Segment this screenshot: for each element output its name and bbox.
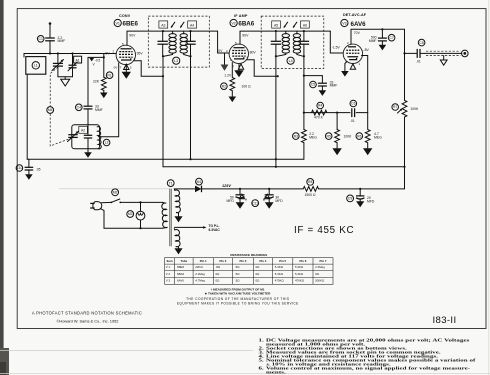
capacitor C6 label bbox=[350, 100, 357, 107]
svg-text:70V: 70V bbox=[354, 31, 361, 35]
svg-text:Item: Item bbox=[167, 259, 173, 263]
wire grid rail bbox=[24, 53, 116, 55]
capacitor C10 bbox=[25, 159, 34, 174]
wire R1 to ground bbox=[103, 90, 105, 92]
svg-text:-1.5V: -1.5V bbox=[332, 46, 341, 50]
inductor L3 label bbox=[173, 57, 180, 64]
transformer T1 secondary HV coil bbox=[174, 189, 180, 213]
ground C7 bbox=[379, 45, 387, 51]
trimmer A2 box label bbox=[79, 126, 88, 133]
wire L4 primary return to B+ bus bbox=[275, 56, 277, 167]
tube V2 internals bbox=[232, 48, 246, 59]
svg-text:100K: 100K bbox=[410, 107, 419, 111]
resistor R2 label bbox=[221, 83, 228, 90]
svg-text:©Howard W. Sams & Co., Inc. 19: ©Howard W. Sams & Co., Inc. 1952 bbox=[57, 319, 119, 324]
capacitor L4 primary bbox=[271, 31, 281, 56]
node R3 junction bbox=[303, 112, 305, 114]
ground R1 bbox=[100, 93, 108, 99]
resistor R7 label bbox=[392, 104, 399, 111]
wire V2 screen stub bbox=[247, 60, 278, 76]
wire V1 cathode bbox=[125, 65, 127, 72]
node AVC bus at L3 bbox=[189, 158, 191, 160]
pin labels V3 bbox=[345, 41, 361, 66]
ground V3 cathode bbox=[341, 71, 349, 77]
capacitor osc padder bbox=[84, 125, 92, 152]
svg-text:MMF: MMF bbox=[58, 39, 66, 43]
voltage 0V V2 grid bbox=[218, 49, 228, 53]
svg-text:1.2V: 1.2V bbox=[224, 74, 232, 78]
capacitor C5 label bbox=[310, 81, 317, 88]
svg-text:6.: 6. bbox=[259, 367, 265, 372]
svg-text:.5Ω: .5Ω bbox=[235, 279, 240, 283]
node trimmer junction bbox=[71, 52, 73, 54]
svg-text:V 1: V 1 bbox=[166, 265, 171, 269]
svg-text:RESISTANCE READINGS: RESISTANCE READINGS bbox=[230, 253, 267, 257]
capacitor C10 label bbox=[16, 165, 23, 172]
wire test stub bbox=[88, 56, 104, 58]
node L4 right bottom bbox=[303, 55, 305, 57]
ground C10 bbox=[25, 174, 33, 180]
svg-text:0V: 0V bbox=[218, 49, 223, 53]
svg-text:T1: T1 bbox=[169, 181, 173, 185]
ground V2 cathode arrow bbox=[234, 70, 243, 77]
node pilot top bbox=[139, 201, 141, 203]
capacitor C7 label bbox=[388, 34, 395, 41]
svg-text:22KΩ: 22KΩ bbox=[195, 265, 203, 269]
wire AVC line bbox=[304, 112, 368, 114]
svg-text:100K: 100K bbox=[344, 134, 353, 138]
resistor R1 22K bbox=[101, 77, 106, 90]
wire plate line down to volume control bbox=[404, 29, 406, 100]
svg-text:L1: L1 bbox=[34, 64, 38, 68]
switch M2 label bbox=[112, 189, 119, 196]
trimmer capacitor A1 box bbox=[74, 56, 82, 63]
svg-text:CONV: CONV bbox=[119, 14, 131, 18]
svg-text:.8Ω: .8Ω bbox=[216, 265, 221, 269]
svg-text:2.2Meg: 2.2Meg bbox=[195, 272, 205, 276]
svg-text:.01: .01 bbox=[350, 119, 355, 123]
svg-text:C5: C5 bbox=[311, 83, 315, 87]
trimmer capacitor A1 bbox=[68, 54, 77, 77]
svg-text:C8: C8 bbox=[419, 41, 423, 45]
svg-text:6BA6: 6BA6 bbox=[238, 21, 254, 28]
ground C11B bbox=[265, 202, 274, 208]
svg-text:5.: 5. bbox=[259, 358, 265, 363]
node screen to B+ riser bbox=[162, 75, 164, 77]
resistance table bbox=[165, 258, 333, 285]
wire C7 lead bbox=[381, 29, 383, 37]
AC plug bbox=[90, 202, 102, 210]
svg-text:A6: A6 bbox=[303, 23, 307, 27]
wire L4 secondary leads bbox=[297, 31, 303, 56]
svg-text:4.7Meg: 4.7Meg bbox=[195, 279, 205, 283]
tube V3 6AV6 envelope bbox=[343, 44, 362, 63]
node L3 right top bbox=[189, 30, 191, 32]
wire plug bottom return bbox=[101, 209, 163, 229]
svg-text:MEG: MEG bbox=[374, 135, 382, 139]
wire HV secondary top bbox=[174, 188, 196, 190]
capacitor C11B electrolytic bbox=[265, 189, 274, 202]
svg-text:R7: R7 bbox=[393, 105, 397, 109]
wire V3 cathode ground bbox=[345, 62, 347, 72]
svg-text:A3: A3 bbox=[161, 23, 165, 27]
svg-text:THE COOPERATION OF THE MANUFAC: THE COOPERATION OF THE MANUFACTURER OF T… bbox=[186, 297, 289, 301]
ground oscillator box bbox=[84, 149, 92, 158]
node C11A bbox=[239, 188, 241, 190]
svg-text:1.: 1. bbox=[259, 338, 265, 343]
svg-text:95V: 95V bbox=[137, 51, 144, 55]
capacitor C9 label bbox=[347, 195, 354, 202]
capacitor C6 bbox=[350, 108, 355, 117]
table row V1 bbox=[166, 265, 325, 269]
svg-text:V2: V2 bbox=[231, 21, 235, 25]
table row V3 bbox=[166, 279, 325, 283]
pilot lamp bbox=[136, 202, 145, 228]
slug arrow L3 left bbox=[171, 22, 175, 28]
svg-text:C4: C4 bbox=[77, 106, 81, 110]
svg-text:A PHOTOFACT STANDARD NOTATI: A PHOTOFACT STANDARD NOTATION SCHEMATIC bbox=[32, 310, 142, 315]
node B+ bus at L4 bbox=[275, 166, 277, 168]
svg-text:Pin 1: Pin 1 bbox=[200, 259, 207, 263]
wire grid to R1 bbox=[103, 54, 105, 78]
svg-text:A1: A1 bbox=[76, 58, 80, 62]
capacitor C4 label bbox=[76, 104, 83, 111]
svg-text:Pin 5: Pin 5 bbox=[279, 259, 286, 263]
node antenna terminal bbox=[49, 22, 52, 25]
wire rail to L1 bbox=[23, 54, 25, 58]
svg-text:I83-II: I83-II bbox=[433, 315, 457, 326]
svg-text:.05: .05 bbox=[36, 168, 41, 172]
resistor R6 label bbox=[356, 133, 363, 140]
value 20 MFD bbox=[367, 196, 375, 203]
capacitor C7 bbox=[378, 38, 387, 45]
svg-text:R4: R4 bbox=[318, 104, 322, 108]
inductor L4 label bbox=[287, 57, 294, 64]
capacitor L4 secondary bbox=[299, 31, 309, 56]
value 33 MMF bbox=[95, 105, 103, 112]
transformer T1 primary coil bbox=[162, 202, 168, 228]
svg-text:Pin 7: Pin 7 bbox=[320, 259, 327, 263]
capacitor C9 electrolytic bbox=[356, 189, 364, 201]
wire switch to T1 bbox=[121, 201, 163, 203]
svg-text:A5: A5 bbox=[274, 23, 278, 27]
ground C11A bbox=[236, 202, 245, 208]
wire V3 plate riser bbox=[351, 29, 405, 44]
svg-text:M1: M1 bbox=[197, 180, 202, 184]
label TO P.L. 6.3VAC bbox=[209, 224, 221, 232]
svg-text:R3: R3 bbox=[294, 134, 298, 138]
svg-text:C1: C1 bbox=[39, 37, 43, 41]
resistor R8 1500 ohm bbox=[303, 186, 319, 193]
svg-text:C6: C6 bbox=[351, 102, 355, 106]
svg-text:MMF: MMF bbox=[330, 84, 338, 88]
wire L3 to V2 grid bbox=[218, 31, 230, 53]
svg-text:V 3: V 3 bbox=[166, 279, 171, 283]
svg-text:L2: L2 bbox=[105, 141, 109, 145]
wire V3 grid return bbox=[362, 56, 368, 113]
svg-text:.5Ω: .5Ω bbox=[235, 265, 240, 269]
loop antenna L1 box bbox=[26, 57, 46, 75]
switch on-off bbox=[111, 199, 122, 203]
svg-text:∗ TAKEN WITH VACUUM TUBE VOLTM: ∗ TAKEN WITH VACUUM TUBE VOLTMETER bbox=[205, 292, 272, 296]
capacitor C5 bbox=[318, 83, 327, 90]
resistor R6 bbox=[365, 113, 370, 149]
wire L4 primary leads bbox=[277, 31, 286, 56]
svg-text:IF AMP: IF AMP bbox=[234, 14, 248, 18]
wire L4 to V3 grid bbox=[330, 31, 343, 53]
test marker cathode V1 bbox=[114, 64, 132, 70]
ground antenna tuning bbox=[61, 77, 70, 86]
svg-text:6AV6: 6AV6 bbox=[177, 279, 184, 283]
wire tuning ground bus bbox=[58, 76, 73, 78]
svg-text:DET-AVC-AF: DET-AVC-AF bbox=[343, 13, 367, 17]
wire L3 secondary leads bbox=[184, 31, 190, 56]
tube V1 internals bbox=[119, 49, 133, 60]
resistor R8 label bbox=[307, 179, 314, 186]
svg-text:90V: 90V bbox=[242, 34, 249, 38]
ground HV secondary bottom bbox=[174, 213, 182, 223]
pin labels V2 bbox=[230, 41, 249, 68]
svg-text:100 Ω: 100 Ω bbox=[242, 84, 252, 88]
capacitor C1 bbox=[45, 38, 55, 54]
value 2.2 MMF bbox=[58, 36, 66, 43]
node output tap bbox=[403, 52, 405, 54]
value 50 MFD bbox=[226, 196, 234, 203]
test marker cathode V3 bbox=[350, 64, 355, 69]
inductor L3 primary coil bbox=[169, 34, 176, 54]
wire L1 to AVC bus bbox=[26, 74, 28, 159]
notes list bbox=[259, 338, 476, 375]
svg-text:C9: C9 bbox=[348, 197, 352, 201]
svg-text:R2: R2 bbox=[222, 84, 226, 88]
resistor R5 label bbox=[325, 133, 332, 140]
ground filament bottom bbox=[174, 247, 182, 255]
svg-text:C7: C7 bbox=[389, 36, 393, 40]
ground R2 bbox=[229, 97, 237, 103]
wire V2 cathode to R2 bbox=[231, 63, 233, 78]
wire V1 screen stub bbox=[134, 61, 163, 76]
node R1 top bbox=[103, 56, 105, 58]
svg-text:MEG: MEG bbox=[309, 135, 317, 139]
svg-text:M3: M3 bbox=[128, 212, 133, 216]
node pilot bottom bbox=[139, 227, 141, 229]
svg-text:V1: V1 bbox=[115, 21, 119, 25]
shielded output cable bbox=[425, 51, 462, 55]
tube V1 label bbox=[114, 19, 138, 27]
inductor L4 secondary coil bbox=[293, 34, 300, 54]
capacitor L3 primary bbox=[158, 31, 168, 56]
faint scan line bottom bbox=[0, 349, 253, 351]
svg-text:6BE6: 6BE6 bbox=[123, 21, 139, 28]
inductor L2 label bbox=[103, 139, 110, 146]
value 2.2 MEG bbox=[309, 132, 317, 140]
capacitor C1 label bbox=[37, 36, 44, 43]
svg-text:Pin 4: Pin 4 bbox=[259, 259, 266, 263]
page edge dark strip bbox=[0, 0, 4, 375]
svg-text:470KΩ: 470KΩ bbox=[295, 279, 305, 283]
wire L4 top bbox=[276, 30, 330, 32]
svg-text:C11: C11 bbox=[252, 201, 258, 205]
wire V2 cathode arrow bbox=[238, 64, 240, 70]
tube V3 internals bbox=[346, 47, 359, 60]
svg-text:2.2Meg: 2.2Meg bbox=[315, 265, 325, 269]
svg-text:MMF: MMF bbox=[95, 108, 103, 112]
wire L3 primary return to B+ bbox=[162, 56, 164, 159]
wire plug top to switch bbox=[102, 201, 111, 203]
inductor L1 label bbox=[32, 62, 39, 69]
variable capacitor osc gang bbox=[68, 131, 79, 141]
slug arrow L4 left bbox=[284, 22, 288, 28]
node C7 tap bbox=[381, 28, 383, 30]
tube V2 6BA6 envelope bbox=[229, 44, 248, 63]
svg-text:5.3KΩ: 5.3KΩ bbox=[275, 272, 284, 276]
wire V2 plate riser bbox=[240, 31, 276, 44]
svg-text:L3: L3 bbox=[174, 59, 178, 63]
faint scan line mid bbox=[59, 188, 170, 190]
capacitor C4 bbox=[84, 106, 93, 109]
node L3 left top bbox=[162, 30, 164, 32]
svg-text:MFD: MFD bbox=[226, 199, 234, 203]
svg-text:EQUIPMENT MAKES IT POSSIBLE TO: EQUIPMENT MAKES IT POSSIBLE TO BRING YOU… bbox=[177, 302, 299, 306]
wire osc grid cap column bbox=[87, 57, 89, 106]
wire V1 plate riser bbox=[127, 31, 163, 45]
svg-text:V 2: V 2 bbox=[166, 272, 171, 276]
wiper arrow R7 bbox=[398, 108, 403, 113]
svg-text:0V: 0V bbox=[105, 52, 110, 56]
wire L3 secondary return to AVC bbox=[190, 56, 192, 159]
svg-text:Pin 2: Pin 2 bbox=[219, 259, 226, 263]
resistor R2 100 ohm bbox=[230, 78, 235, 91]
svg-text:22K: 22K bbox=[93, 79, 100, 83]
svg-text:A2: A2 bbox=[81, 129, 85, 133]
capacitor C8 bbox=[417, 49, 424, 58]
trimmer A3 box bbox=[159, 21, 168, 28]
svg-text:MFD: MFD bbox=[367, 199, 375, 203]
pin labels V1 bbox=[113, 42, 136, 69]
node L3 left bottom bbox=[162, 55, 164, 57]
inductor L4 primary coil bbox=[282, 34, 289, 54]
resistor R1 label bbox=[106, 72, 113, 79]
transformer T1 label bbox=[167, 180, 174, 187]
svg-text:-0.5: -0.5 bbox=[95, 58, 101, 62]
capacitor C11A electrolytic bbox=[236, 189, 245, 202]
wire antenna down bbox=[49, 24, 51, 38]
svg-text:M2: M2 bbox=[113, 191, 118, 195]
oscillator coil shield box bbox=[72, 125, 100, 149]
ground C5 bbox=[319, 90, 327, 96]
wire L2 tap bbox=[99, 63, 119, 137]
label B section bbox=[263, 194, 270, 201]
node C11B bbox=[268, 188, 270, 190]
svg-text:Volume control at maximum, no: Volume control at maximum, no signal app… bbox=[266, 367, 470, 372]
wire L3 primary leads bbox=[164, 31, 173, 56]
wire C4 to osc box bbox=[87, 109, 89, 125]
svg-text:.5Ω: .5Ω bbox=[235, 272, 240, 276]
svg-text:Pin 3: Pin 3 bbox=[239, 259, 246, 263]
svg-text:M4: M4 bbox=[48, 108, 53, 112]
IF can L3 dashed box bbox=[148, 16, 209, 67]
ground R5 bbox=[332, 148, 341, 155]
test point -0.5V bbox=[89, 58, 100, 67]
svg-text:470 K: 470 K bbox=[314, 115, 324, 119]
resistor R4 label bbox=[317, 102, 324, 109]
wire R7 to B+ bus bbox=[404, 117, 406, 189]
svg-text:.01: .01 bbox=[416, 59, 421, 63]
svg-text:L4: L4 bbox=[289, 59, 293, 63]
svg-text:C10: C10 bbox=[16, 166, 22, 170]
ground V2 grid-side bbox=[221, 53, 229, 71]
node R5 junction bbox=[336, 112, 338, 114]
svg-text:A4: A4 bbox=[190, 23, 194, 27]
trimmer A4 box bbox=[188, 21, 197, 28]
svg-text:R6: R6 bbox=[357, 134, 361, 138]
inductor L3 secondary coil bbox=[180, 34, 187, 54]
svg-text:80V: 80V bbox=[250, 50, 257, 54]
svg-text:R1: R1 bbox=[107, 73, 111, 77]
node L4 left bottom bbox=[275, 55, 277, 57]
node L4 left top bbox=[275, 30, 277, 32]
slug arrow L4 right bbox=[293, 22, 297, 28]
svg-text:R8: R8 bbox=[308, 180, 312, 184]
node B+ bus at R7 bbox=[403, 166, 405, 168]
wire B+ line bbox=[201, 188, 404, 190]
svg-text:R5: R5 bbox=[327, 134, 331, 138]
svg-text:MMF: MMF bbox=[369, 39, 377, 43]
svg-text:500KΩ: 500KΩ bbox=[315, 279, 325, 283]
inductor L2 coil bbox=[97, 127, 101, 149]
resistor R3 bbox=[302, 113, 307, 160]
trimmer A5 box bbox=[272, 21, 281, 28]
wire R2 to ground bbox=[231, 91, 233, 97]
node tuning cap junction bbox=[57, 52, 59, 54]
tube V1 6BE6 envelope bbox=[116, 45, 135, 64]
resistor R4 470K bbox=[312, 110, 327, 115]
svg-text:MFD: MFD bbox=[275, 199, 283, 203]
svg-text:125V: 125V bbox=[222, 184, 231, 188]
svg-text:6BE6: 6BE6 bbox=[177, 265, 184, 269]
wire bus link bbox=[162, 159, 164, 167]
svg-text:90V: 90V bbox=[129, 34, 136, 38]
ground cable shield bbox=[440, 56, 447, 66]
svg-text:6BA6: 6BA6 bbox=[177, 272, 184, 276]
mechanical gang dashed link bbox=[50, 67, 71, 146]
svg-text:-.8V: -.8V bbox=[363, 48, 370, 52]
resistor R7 volume control bbox=[402, 100, 407, 117]
svg-text:0V: 0V bbox=[114, 66, 118, 70]
capacitor C11 label bbox=[252, 200, 259, 207]
table header row bbox=[167, 259, 327, 263]
node C9 bbox=[359, 188, 361, 190]
value 500 MMF bbox=[369, 36, 377, 43]
IF can L4 dashed box bbox=[261, 16, 324, 68]
capacitor L3 secondary bbox=[185, 31, 195, 56]
svg-text:1500 Ω: 1500 Ω bbox=[305, 193, 316, 197]
svg-text:ments.: ments. bbox=[266, 371, 286, 375]
svg-text:5.3KΩ: 5.3KΩ bbox=[275, 265, 284, 269]
rectifier M1 label bbox=[196, 178, 203, 185]
svg-text:Pin 6: Pin 6 bbox=[299, 259, 306, 263]
node C5 tap bbox=[303, 75, 305, 77]
svg-text:6.3VAC: 6.3VAC bbox=[209, 228, 221, 232]
svg-text:6AV6: 6AV6 bbox=[351, 21, 367, 28]
connector output grommet bbox=[462, 50, 469, 57]
slug arrow L3 right bbox=[180, 22, 184, 28]
node L4 right top bbox=[303, 30, 305, 32]
svg-text:Tube: Tube bbox=[181, 259, 188, 263]
ground R6 bbox=[363, 148, 372, 155]
trimmer A6 box bbox=[301, 21, 310, 28]
transformer T1 core bbox=[170, 189, 172, 247]
